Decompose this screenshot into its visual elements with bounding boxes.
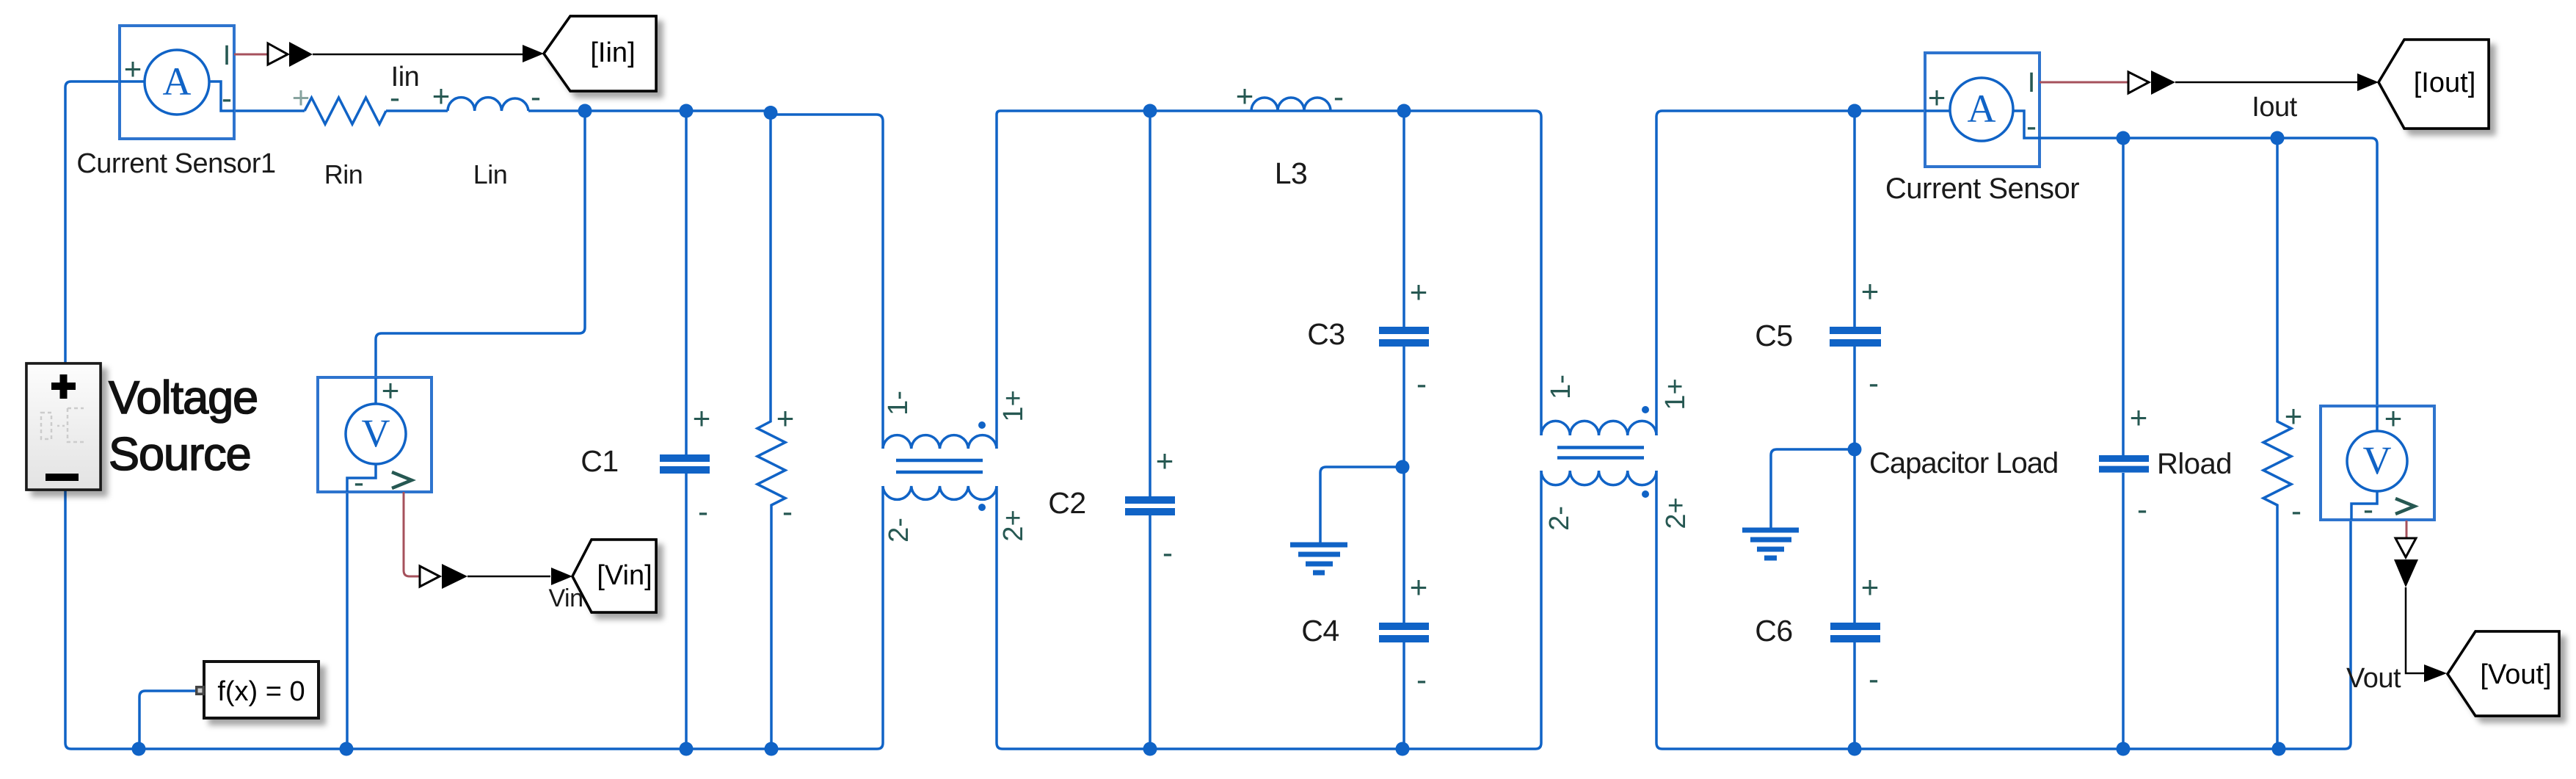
- resistor Rin: [305, 98, 386, 124]
- svg-text:-: -: [2363, 492, 2373, 526]
- svg-text:Capacitor Load: Capacitor Load: [1869, 447, 2058, 479]
- svg-text:Iout: Iout: [2252, 92, 2297, 123]
- svg-text:+: +: [382, 373, 400, 407]
- svg-text:+: +: [124, 51, 142, 86]
- node junction R2 top: [2271, 131, 2285, 145]
- svg-text:-: -: [782, 494, 793, 529]
- goto tag [Vin]: [572, 540, 656, 612]
- svg-text:-: -: [531, 79, 541, 114]
- svg-text:1-: 1-: [883, 391, 914, 416]
- svg-text:C5: C5: [1755, 319, 1792, 352]
- svg-text:Lin: Lin: [473, 159, 508, 189]
- svg-text:[Vin]: [Vin]: [597, 560, 652, 591]
- node junction C4 bus: [1396, 742, 1410, 756]
- svg-text:C1: C1: [581, 444, 618, 478]
- svg-text:+: +: [1861, 570, 1880, 604]
- svg-text:Vin: Vin: [548, 584, 583, 612]
- wire: voltage source + up to current sensor1 input: [65, 81, 120, 363]
- transformer T2 primary winding: [1541, 421, 1656, 435]
- transformer T1 secondary winding: [883, 486, 997, 499]
- signal wire Iout: [2040, 70, 2379, 95]
- signal wire Vout: [2394, 521, 2447, 682]
- svg-text:1+: 1+: [1660, 378, 1691, 410]
- svg-text:Current Sensor: Current Sensor: [1885, 173, 2079, 205]
- svg-text:A: A: [163, 59, 192, 104]
- svg-text:-: -: [1334, 79, 1344, 114]
- node junction f(x) bus: [132, 742, 146, 756]
- svg-text:+: +: [1156, 443, 1174, 478]
- wire: stub to ground2: [1771, 449, 1855, 528]
- svg-text:-: -: [1416, 366, 1427, 401]
- node junction C2 top: [1143, 104, 1157, 118]
- svg-text:2+: 2+: [998, 510, 1029, 541]
- svg-text:-: -: [390, 80, 400, 115]
- capacitor C5 plates: [1830, 327, 1881, 347]
- node junction ground2: [1848, 443, 1862, 457]
- svg-text:Rin: Rin: [324, 159, 363, 189]
- svg-text:+: +: [776, 401, 795, 435]
- transformer T2 dot marks: [1642, 406, 1649, 413]
- wire: C5/C6 branch vertical: [1853, 111, 1856, 749]
- right bottom bus: [1656, 471, 2351, 749]
- node junction C6 bus: [1848, 742, 1862, 756]
- node junction C1 bus: [680, 742, 694, 756]
- svg-text:Source: Source: [109, 429, 251, 480]
- wire: C1 branch vertical: [685, 111, 688, 749]
- node junction C2 bus: [1143, 742, 1157, 756]
- node junction Rload bus: [2117, 742, 2131, 756]
- wire: right rail sensor out: [2040, 138, 2377, 406]
- wire: voltage sensor1 bottom to bus: [346, 493, 349, 749]
- current sensor1 block (left): [120, 26, 234, 139]
- capacitor C1 plates: [660, 454, 710, 474]
- node junction C1 top: [680, 104, 694, 118]
- svg-text:C2: C2: [1048, 486, 1085, 520]
- resistor R2 vertical: [2263, 138, 2291, 749]
- ground symbol 1: [1290, 545, 1347, 573]
- capacitor Rload plates: [2099, 455, 2149, 473]
- svg-text:2+: 2+: [1661, 497, 1692, 529]
- transformer T2 right vertical up to right rail: [1656, 111, 1925, 435]
- transformer T1 right vertical up to middle rail: [997, 111, 1541, 449]
- svg-text:-: -: [222, 81, 232, 115]
- svg-text:+: +: [1236, 79, 1254, 113]
- middle bottom bus: [997, 471, 1541, 749]
- ground symbol 2: [1742, 530, 1799, 558]
- goto tag [Iin]: [544, 16, 656, 91]
- svg-text:[Iin]: [Iin]: [590, 37, 635, 68]
- svg-text:-: -: [2137, 492, 2147, 526]
- svg-text:+: +: [1410, 275, 1428, 309]
- svg-text:V: V: [2363, 438, 2392, 482]
- capacitor C6 plates: [1830, 623, 1880, 642]
- svg-text:2-: 2-: [1544, 506, 1575, 531]
- svg-text:+: +: [2130, 400, 2148, 435]
- node junction R2 bus: [2272, 742, 2286, 756]
- capacitor C3 plates: [1379, 327, 1429, 347]
- svg-text:-: -: [1869, 662, 1879, 696]
- svg-text:1-: 1-: [1546, 374, 1576, 399]
- wire: f(x) solver to bus: [139, 691, 204, 749]
- svg-text:+: +: [2285, 399, 2303, 433]
- transformer T2 secondary winding: [1541, 471, 1656, 485]
- svg-text:I: I: [2028, 68, 2036, 98]
- resistor R1 vertical (unnamed): [757, 115, 785, 749]
- svg-text:[Iout]: [Iout]: [2414, 68, 2476, 98]
- goto tag [Iout]: [2379, 40, 2489, 128]
- svg-text:+: +: [693, 401, 711, 435]
- voltage sensor block (left): [318, 373, 432, 499]
- svg-text:2-: 2-: [884, 518, 914, 543]
- voltage sensor block (right): [2321, 401, 2434, 526]
- svg-text:1+: 1+: [998, 390, 1029, 421]
- svg-text:-: -: [1416, 662, 1427, 697]
- svg-text:+: +: [1928, 80, 1946, 115]
- node junction R1 bus: [765, 742, 779, 756]
- svg-text:V: V: [362, 411, 390, 455]
- transformer T1 primary winding: [883, 435, 997, 449]
- svg-text:+: +: [432, 79, 451, 113]
- svg-text:Current Sensor1: Current Sensor1: [76, 148, 275, 179]
- svg-text:f(x) = 0: f(x) = 0: [217, 676, 305, 707]
- signal wire Vin: [404, 492, 572, 589]
- svg-text:+: +: [1410, 570, 1428, 604]
- solver block f(x)=0: [195, 662, 319, 718]
- svg-text:-: -: [2026, 109, 2037, 143]
- wire: C2 branch vertical: [1149, 111, 1151, 749]
- node junction C3 top: [1397, 104, 1411, 118]
- wire Lin to transformer1 with jog: [528, 111, 883, 449]
- svg-text:[Vout]: [Vout]: [2480, 659, 2551, 690]
- inductor Lin: [448, 98, 528, 111]
- svg-text:+: +: [2384, 401, 2403, 435]
- svg-text:+: +: [292, 80, 310, 115]
- bottom bus left section: [65, 363, 883, 749]
- svg-text:I: I: [223, 40, 231, 71]
- inductor L3: [1251, 98, 1331, 111]
- wire: C3/C4 branch vertical: [1402, 111, 1405, 749]
- wire Rin to Lin: [386, 109, 448, 112]
- current sensor block (right): [1925, 53, 2040, 167]
- node junction Lin-right: [578, 104, 592, 118]
- wire: junction down to voltage sensor1 top: [376, 111, 585, 378]
- node junction R1 top: [764, 106, 778, 120]
- transformer T1 core: [896, 460, 983, 472]
- svg-text:L3: L3: [1275, 156, 1308, 190]
- wire: top rail left section (sensor1 out, through Rin/Lin area to transformer1): [234, 109, 305, 112]
- svg-text:Voltage: Voltage: [109, 372, 258, 424]
- voltage source block: [26, 363, 101, 490]
- svg-text:Vout: Vout: [2346, 663, 2401, 694]
- goto tag [Vout]: [2448, 631, 2559, 716]
- node junction C5 top: [1848, 104, 1862, 118]
- capacitor C2 plates: [1125, 496, 1175, 515]
- transformer T2 core: [1557, 448, 1644, 458]
- svg-text:-: -: [698, 494, 708, 529]
- transformer T1 dot marks: [978, 421, 986, 429]
- node junction Rload top: [2117, 131, 2131, 145]
- svg-text:-: -: [2291, 493, 2302, 528]
- svg-text:A: A: [1968, 87, 1996, 131]
- wire: Rload capacitor branch: [2122, 138, 2125, 749]
- node junction Vsensor1 bus: [340, 742, 354, 756]
- svg-text:C6: C6: [1755, 614, 1792, 648]
- wire: stub to ground1: [1320, 467, 1402, 543]
- svg-text:-: -: [1869, 366, 1879, 400]
- svg-text:+: +: [1861, 274, 1880, 308]
- svg-text:-: -: [354, 465, 364, 499]
- signal wire Iin: [234, 42, 544, 67]
- svg-text:Rload: Rload: [2157, 448, 2232, 480]
- svg-text:C3: C3: [1307, 317, 1345, 351]
- svg-text:C4: C4: [1301, 614, 1339, 648]
- svg-text:-: -: [1163, 535, 1173, 570]
- node junction ground1: [1396, 460, 1410, 474]
- capacitor C4 plates: [1379, 623, 1429, 642]
